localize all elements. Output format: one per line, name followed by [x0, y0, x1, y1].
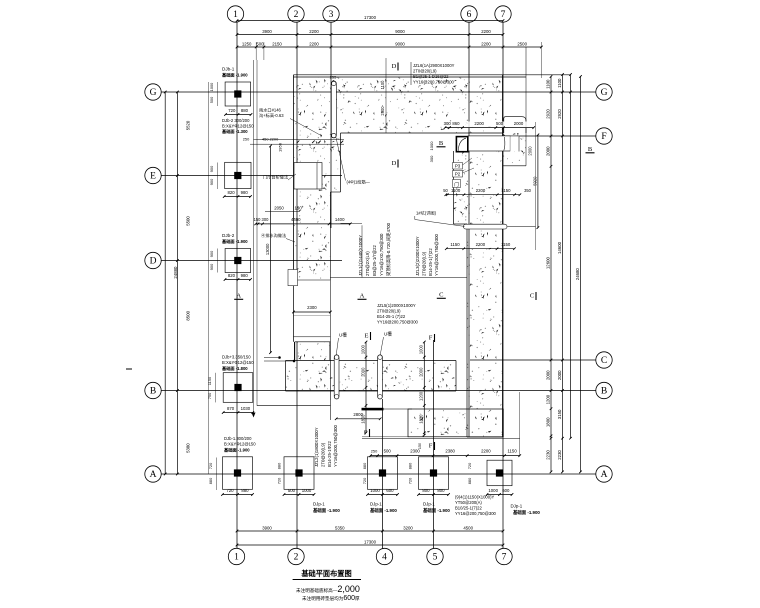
dimension 720/880 under A/1 footing — [223, 494, 253, 496]
U-channel slot 2 in bottom band — [378, 355, 383, 399]
svg-text:1100: 1100 — [557, 78, 562, 88]
dimension vertical interior 1000/2000/1200/1800/150 — [423, 342, 425, 435]
svg-text:24880: 24880 — [173, 266, 178, 279]
dimension right column 1100/2920/14600/2000/3150/2230 — [562, 75, 564, 472]
svg-text:C: C — [530, 293, 534, 300]
svg-text:900: 900 — [209, 250, 214, 257]
svg-text:820: 820 — [228, 190, 236, 195]
svg-text:880: 880 — [277, 462, 282, 469]
grid line axis F — [503, 135, 596, 137]
dimension 500/1000 under A/2 footing — [284, 494, 314, 496]
svg-text:YY16@200,750@300: YY16@200,750@300 — [377, 320, 419, 325]
svg-text:12600: 12600 — [545, 257, 550, 270]
wire: double lines at y139/144 left — [254, 138, 345, 140]
dimension top row fine 1250/500/2150/2200/9000/2200/2500 — [237, 46, 541, 48]
dimension row 1150/2200/1150 at y248 — [446, 248, 514, 250]
svg-text:17300: 17300 — [364, 539, 377, 544]
U-channel slot 1 in bottom band — [334, 355, 339, 399]
svg-text:D: D — [150, 257, 157, 267]
svg-text:870: 870 — [227, 406, 235, 411]
step outside right band near axis 7 — [504, 117, 526, 133]
svg-text:门: 门 — [454, 181, 459, 188]
dimension right total 24680 — [580, 77, 582, 472]
footing DJb-2 at D/1 — [225, 249, 251, 273]
svg-text:DJb-2 300/200: DJb-2 300/200 — [222, 118, 250, 123]
grid line axis 7 — [502, 23, 504, 549]
dimension top row spans 3900/2200/9000/2200 — [237, 34, 503, 36]
node axis circle B (left) — [145, 382, 161, 398]
svg-text:1250: 1250 — [242, 41, 252, 46]
wall: left exterior band upper — [294, 133, 341, 192]
wire: left band edges — [293, 75, 295, 342]
svg-text:1#坑(详图): 1#坑(详图) — [416, 210, 437, 217]
grid line axis D — [161, 260, 342, 262]
svg-text:D: D — [392, 63, 397, 70]
wire: top band bottom edge — [341, 132, 503, 134]
grid line axis G — [161, 91, 596, 93]
wire: lower-right band outline — [408, 409, 503, 437]
svg-text:2200: 2200 — [309, 29, 319, 34]
svg-text:2200: 2200 — [309, 41, 319, 46]
svg-text:1000: 1000 — [360, 344, 365, 354]
footing at E/1 — [225, 162, 251, 188]
svg-text:1200: 1200 — [419, 391, 424, 401]
svg-text:B1@25-1 D16@22: B1@25-1 D16@22 — [413, 74, 449, 79]
svg-text:7: 7 — [502, 553, 507, 563]
dimension row 150/300/4400/1400 at y225 — [256, 223, 351, 225]
svg-text:2200: 2200 — [481, 29, 491, 34]
footing DJp-1 at A/7 — [487, 460, 512, 486]
svg-text:300: 300 — [429, 155, 434, 162]
grid line axis 4 lower part — [382, 399, 384, 548]
svg-text:F: F — [429, 443, 433, 450]
svg-text:沟+标高-0.63: 沟+标高-0.63 — [259, 112, 284, 119]
dimension 2300 in left door gap — [294, 311, 331, 313]
svg-text:基础面 -1.300: 基础面 -1.300 — [221, 128, 248, 135]
svg-text:YY16@1X0,750@300: YY16@1X0,750@300 — [379, 233, 384, 276]
dimension 1000/600 under A/4 footing — [368, 494, 398, 496]
svg-text:150: 150 — [418, 443, 422, 449]
dimension right column 12600 line — [570, 75, 572, 439]
flue slot in top band — [331, 81, 336, 138]
svg-text:2T0@20(L9): 2T0@20(L9) — [320, 442, 325, 467]
svg-text:2050: 2050 — [274, 206, 284, 211]
svg-text:500: 500 — [256, 41, 264, 46]
svg-text:DJp-1: DJp-1 — [313, 502, 325, 507]
svg-text:3200: 3200 — [403, 525, 413, 530]
grid line axis 3 — [330, 23, 332, 229]
node axis circle 5 (bottom) — [427, 548, 443, 564]
wall: left exterior band lower — [294, 192, 331, 280]
svg-text:B14-25-1 (7)22: B14-25-1 (7)22 — [377, 314, 406, 319]
svg-text:2200: 2200 — [474, 121, 484, 126]
wire: notch extension lines right — [535, 122, 537, 250]
grid line axis 5 lower part — [433, 340, 435, 548]
svg-text:450 2200: 450 2200 — [262, 137, 279, 142]
wire: vertical reference line x208.5 — [208, 82, 210, 474]
node axis circle E (left) — [145, 167, 161, 183]
svg-text:4: 4 — [382, 553, 387, 563]
svg-text:900: 900 — [209, 178, 214, 185]
svg-text:17300: 17300 — [364, 15, 377, 20]
svg-text:④排水沟做法: ④排水沟做法 — [261, 232, 286, 239]
svg-text:1000: 1000 — [370, 488, 380, 493]
grid line axis B — [161, 390, 596, 392]
svg-text:B: B — [150, 387, 156, 397]
dimension left total 24880 — [164, 92, 166, 474]
svg-text:5380: 5380 — [186, 443, 191, 453]
wall: right exterior band upper part — [454, 151, 503, 224]
svg-text:1150: 1150 — [507, 449, 517, 454]
svg-text:(4Φ)1绞筋—: (4Φ)1绞筋— — [347, 179, 371, 186]
svg-text:800: 800 — [437, 488, 445, 493]
svg-text:2150: 2150 — [272, 41, 282, 46]
footing DJp at A/1 — [223, 457, 253, 490]
svg-text:720: 720 — [362, 477, 367, 484]
svg-text:B14-25-1Φ22: B14-25-1Φ22 — [327, 441, 332, 467]
svg-text:U槽: U槽 — [384, 331, 392, 338]
svg-text:2000: 2000 — [514, 121, 524, 126]
node axis circle 7 (bottom) — [496, 548, 512, 564]
svg-text:2920: 2920 — [545, 109, 550, 119]
dimension 870/1030 under B footing — [223, 412, 253, 414]
svg-text:1000: 1000 — [209, 82, 214, 91]
svg-text:5520: 5520 — [186, 120, 191, 130]
svg-text:500: 500 — [288, 488, 296, 493]
svg-text:1150: 1150 — [501, 242, 511, 247]
svg-text:C: C — [439, 292, 443, 299]
node axis circle G (left) — [145, 84, 161, 100]
svg-text:B: B — [439, 140, 444, 147]
svg-text:1030: 1030 — [241, 406, 251, 411]
svg-text:1100: 1100 — [451, 188, 461, 193]
svg-text:1400: 1400 — [335, 217, 345, 222]
grid line axis C — [470, 359, 596, 361]
door jamb thick box — [456, 137, 467, 152]
grid line axis A — [161, 473, 596, 475]
svg-text:6: 6 — [467, 10, 472, 20]
svg-text:880: 880 — [467, 477, 472, 484]
svg-text:YY16@200,750@300: YY16@200,750@300 — [413, 80, 455, 85]
svg-text:基础面 -1.900: 基础面 -1.900 — [313, 507, 340, 514]
node axis circle 1 (top) — [227, 6, 243, 22]
notch in left wall edge — [288, 270, 298, 286]
dimension left segments 5520/5500/8500/5380 — [176, 92, 178, 474]
svg-text:255: 255 — [330, 75, 337, 80]
node axis circle 7 (top) — [495, 6, 511, 22]
svg-text:720: 720 — [277, 477, 282, 484]
svg-text:880: 880 — [208, 477, 213, 484]
node axis circle 6 (top) — [461, 6, 477, 22]
wire: extension x519.7 lower right — [519, 392, 521, 456]
stray dash mark — [126, 368, 132, 370]
svg-text:980: 980 — [241, 273, 249, 278]
wire: top fine-dim extension lines — [255, 42, 257, 60]
svg-text:50: 50 — [443, 188, 448, 193]
svg-text:500: 500 — [209, 96, 214, 103]
grid line axis E — [161, 175, 342, 177]
svg-text:5920: 5920 — [532, 176, 537, 186]
svg-text:1100: 1100 — [380, 80, 385, 90]
node axis circle 2 (bottom) — [288, 548, 304, 564]
grid line axis 6 — [468, 23, 470, 438]
wire: right band bottom edge — [467, 436, 503, 438]
svg-text:5: 5 — [433, 553, 438, 563]
wire: strip below bottom band — [257, 405, 331, 407]
wall: top exterior strip footing band — [294, 77, 503, 133]
svg-text:B14-25-1(7)22: B14-25-1(7)22 — [428, 248, 433, 276]
svg-text:JZL5(1)2000X1000Y: JZL5(1)2000X1000Y — [377, 303, 416, 308]
dimension 800/800 under A/5 footing — [419, 494, 449, 496]
svg-text:2000: 2000 — [545, 146, 550, 156]
dimension vertical 5920 — [537, 135, 539, 228]
svg-text:1200: 1200 — [545, 394, 550, 404]
svg-text:G: G — [601, 88, 608, 98]
svg-text:720: 720 — [467, 462, 472, 469]
svg-text:1: 1 — [234, 553, 239, 563]
svg-text:2200: 2200 — [481, 41, 491, 46]
svg-text:880: 880 — [408, 462, 413, 469]
svg-text:150°: 150° — [295, 206, 304, 211]
wire: top band outline — [294, 74, 571, 76]
svg-text:2200: 2200 — [476, 242, 486, 247]
dimension row 50/1100/2200/1150/350 at y196 — [446, 194, 520, 196]
svg-text:500: 500 — [384, 449, 392, 454]
door opening in right band at F — [468, 136, 510, 151]
footing DJb at B/1 — [223, 373, 253, 403]
svg-text:2T0@20(L9): 2T0@20(L9) — [421, 251, 426, 276]
svg-text:(9)4(1)1150(X1000)Y: (9)4(1)1150(X1000)Y — [455, 495, 494, 500]
wire: vertical line x362 courtyard — [361, 225, 363, 277]
svg-text:JZL3(2)2200X1000Y: JZL3(2)2200X1000Y — [415, 236, 420, 276]
svg-text:2000: 2000 — [419, 367, 424, 377]
svg-text:基础面 -1.900: 基础面 -1.900 — [223, 447, 250, 454]
svg-text:DJp-1: DJp-1 — [370, 502, 382, 507]
svg-text:DJb+3.350/150: DJb+3.350/150 — [222, 355, 251, 360]
svg-text:基础面 -1.900: 基础面 -1.900 — [423, 507, 450, 514]
footing DJb-1 at G/1 — [225, 82, 251, 106]
svg-text:基础面 -1.800: 基础面 -1.800 — [221, 365, 248, 372]
svg-text:JZL1(1)1440(X1000Y: JZL1(1)1440(X1000Y — [358, 235, 363, 276]
svg-text:2300: 2300 — [307, 305, 317, 310]
arrow at end of auxiliary line — [252, 413, 256, 418]
svg-text:F: F — [601, 132, 606, 142]
svg-text:E: E — [365, 333, 369, 340]
svg-text:YY16@200,750@300: YY16@200,750@300 — [333, 424, 338, 467]
svg-text:350: 350 — [524, 188, 532, 193]
wire: interior horizontal line mid courtyard — [330, 277, 467, 279]
svg-text:24680: 24680 — [575, 268, 580, 281]
svg-text:2200: 2200 — [481, 449, 491, 454]
node axis circle A (left) — [145, 466, 161, 482]
svg-text:G: G — [150, 88, 157, 98]
svg-text:1800: 1800 — [419, 414, 424, 424]
svg-text:720: 720 — [208, 462, 213, 469]
svg-text:2500: 2500 — [517, 41, 527, 46]
svg-text:1150: 1150 — [501, 188, 511, 193]
svg-text:2230: 2230 — [545, 450, 550, 460]
svg-text:P2: P2 — [455, 172, 461, 177]
svg-text:2230: 2230 — [557, 450, 562, 460]
svg-text:C: C — [601, 356, 607, 366]
svg-text:未注明用砖垫层均为600厚: 未注明用砖垫层均为600厚 — [302, 595, 360, 602]
wire: auxiliary vertical lines left of building — [253, 60, 255, 413]
svg-text:2920: 2920 — [557, 109, 562, 119]
dimension top total 17300 — [237, 20, 503, 22]
svg-text:基础面 -1.900: 基础面 -1.900 — [513, 509, 540, 516]
svg-text:4500: 4500 — [463, 525, 473, 530]
svg-text:1000: 1000 — [302, 488, 312, 493]
svg-text:2000: 2000 — [545, 370, 550, 380]
footing DJp at A/2 — [284, 457, 314, 490]
svg-text:DJb-2: DJb-2 — [222, 233, 235, 238]
wire: vertical 13000 dim line — [270, 146, 272, 353]
leader dots from DJb label at B — [264, 357, 278, 359]
svg-text:880: 880 — [241, 488, 249, 493]
svg-text:1000: 1000 — [488, 488, 498, 493]
svg-text:F: F — [364, 430, 368, 437]
dimension 1000/600 under A/7 footing — [487, 494, 512, 496]
svg-text:2: 2 — [294, 10, 299, 20]
dimension 820/980 under D footing — [225, 279, 251, 281]
svg-text:基础面 -1.900: 基础面 -1.900 — [370, 507, 397, 514]
svg-text:E: E — [150, 172, 156, 182]
svg-text:1150: 1150 — [450, 242, 460, 247]
svg-text:B:X&YΦ12@150: B:X&YΦ12@150 — [224, 442, 256, 447]
svg-text:基础平面布置图: 基础平面布置图 — [300, 569, 351, 578]
svg-text:8500: 8500 — [186, 310, 191, 320]
svg-text:A: A — [236, 293, 241, 300]
dimension vertical interior second 1000/2000/1800 — [365, 342, 367, 433]
svg-text:门厅台阶做法: 门厅台阶做法 — [263, 174, 288, 181]
footing DJp-1 at A/4 — [368, 457, 398, 490]
svg-text:基础面 -1.900: 基础面 -1.900 — [221, 72, 248, 79]
node axis circle 1 (bottom) — [228, 548, 244, 564]
svg-text:2T0@2X(L9): 2T0@2X(L9) — [365, 251, 370, 276]
node axis circle A (right) — [596, 466, 612, 482]
svg-text:A: A — [360, 293, 365, 300]
svg-text:13000: 13000 — [265, 243, 270, 255]
dimension 820/980 under E footing — [224, 196, 250, 198]
svg-text:DJp-1: DJp-1 — [511, 504, 523, 509]
svg-text:250: 250 — [243, 137, 250, 142]
svg-text:3900: 3900 — [262, 525, 272, 530]
exterior step block right of axis 7 — [503, 133, 526, 166]
svg-text:A: A — [601, 470, 608, 480]
svg-text:980: 980 — [241, 190, 249, 195]
svg-text:基础面 -1.900: 基础面 -1.900 — [221, 238, 248, 245]
svg-text:1800: 1800 — [545, 417, 550, 427]
svg-text:P3: P3 — [455, 164, 461, 169]
svg-text:880: 880 — [241, 108, 249, 113]
svg-text:2T0@20(L9): 2T0@20(L9) — [413, 69, 437, 74]
svg-text:900: 900 — [209, 165, 214, 172]
dimension 2800 under bottom band — [336, 418, 380, 420]
svg-text:DJb-1: DJb-1 — [222, 67, 235, 72]
grid line axis 1 — [236, 23, 238, 549]
svg-text:7: 7 — [501, 10, 506, 20]
svg-text:2380: 2380 — [445, 449, 455, 454]
wall: right exterior band lower part — [467, 224, 503, 437]
dimension right fine column 1100/2920/2000/12600/2000/1200/1800/150/2230 — [550, 77, 552, 472]
svg-text:3: 3 — [329, 10, 334, 20]
svg-text:1: 1 — [233, 10, 238, 20]
svg-text:B:X&YΦ12@150: B:X&YΦ12@150 — [222, 124, 254, 129]
svg-text:900: 900 — [209, 263, 214, 270]
entrance step at E on left wall — [294, 163, 322, 189]
door gap in left band (2300) — [294, 280, 330, 316]
svg-text:14600: 14600 — [557, 241, 562, 254]
svg-text:2: 2 — [294, 553, 299, 563]
wall: bottom band along axis B — [286, 361, 457, 391]
svg-text:9000: 9000 — [395, 41, 405, 46]
svg-text:2T0@20(L9): 2T0@20(L9) — [377, 309, 401, 314]
svg-text:600: 600 — [502, 488, 510, 493]
svg-text:860: 860 — [452, 121, 460, 126]
svg-text:DJb-1.300/200: DJb-1.300/200 — [224, 436, 252, 441]
svg-text:5350: 5350 — [335, 525, 345, 530]
node axis circle G (right) — [596, 84, 612, 100]
svg-text:YY16@200,750@300: YY16@200,750@300 — [455, 511, 497, 516]
svg-text:880: 880 — [362, 462, 367, 469]
svg-text:2900: 2900 — [380, 106, 385, 116]
footing DJp-1 at A/5 — [419, 457, 449, 490]
node axis circle 4 (bottom) — [376, 548, 392, 564]
svg-text:F: F — [429, 335, 433, 342]
svg-text:JZL6(1A)2900X1000Y: JZL6(1A)2900X1000Y — [413, 63, 455, 68]
svg-text:1150: 1150 — [207, 376, 212, 385]
svg-text:9000: 9000 — [395, 29, 405, 34]
wire: bottom band outline — [286, 360, 457, 362]
svg-text:3900: 3900 — [262, 29, 272, 34]
white boxes below left door gap — [294, 316, 330, 341]
dimension bottom row 3900/5350/3200/4500 — [237, 530, 503, 532]
svg-text:B10/25-1(7)22: B10/25-1(7)22 — [455, 506, 482, 511]
svg-text:DJp-1: DJp-1 — [423, 502, 435, 507]
dimension row 300/860/2200/500/2000 at y127 — [443, 122, 535, 129]
wall: lower-right band between B and A — [408, 409, 503, 437]
svg-text:2200: 2200 — [476, 188, 486, 193]
node axis circle C (right) — [596, 352, 612, 368]
svg-text:2000: 2000 — [360, 367, 365, 377]
node axis circle 3 (top) — [323, 6, 339, 22]
wire: right band edges — [502, 75, 504, 437]
svg-text:D: D — [392, 160, 397, 167]
svg-text:1000: 1000 — [429, 141, 434, 151]
svg-text:750: 750 — [207, 392, 212, 399]
node axis circle D (left) — [145, 252, 161, 268]
svg-text:800: 800 — [422, 488, 430, 493]
wall: narrow stipple block below left door gap — [295, 342, 330, 360]
svg-text:U槽: U槽 — [339, 332, 347, 339]
svg-text:500: 500 — [496, 121, 504, 126]
svg-text:1100: 1100 — [545, 79, 550, 89]
svg-text:A: A — [150, 470, 157, 480]
dimension 720/880 under G footing — [226, 114, 252, 116]
svg-text:B3@25-1/7@22: B3@25-1/7@22 — [372, 244, 377, 276]
node axis circle B (right) — [596, 382, 612, 398]
svg-text:2000: 2000 — [528, 146, 533, 156]
svg-text:B:X&YΦ12@150: B:X&YΦ12@150 — [222, 360, 254, 365]
svg-text:1800: 1800 — [360, 414, 365, 424]
svg-text:YT50@200(A): YT50@200(A) — [455, 500, 482, 505]
svg-text:5500: 5500 — [186, 216, 191, 226]
svg-text:4400: 4400 — [291, 217, 301, 222]
svg-text:720: 720 — [226, 488, 234, 493]
beam solid bar above lower-right band — [362, 408, 384, 411]
svg-text:1950: 1950 — [278, 142, 283, 152]
svg-text:720: 720 — [228, 108, 236, 113]
